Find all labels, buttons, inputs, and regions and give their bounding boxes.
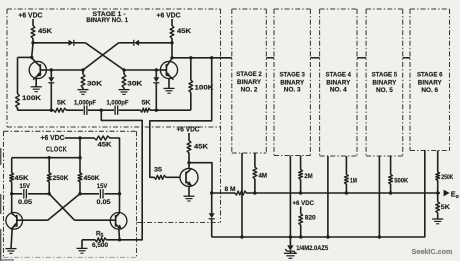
- wire 30K right to ground: [123, 88, 125, 89]
- svg-text:45K: 45K: [98, 141, 112, 148]
- wire 1M to bus: [345, 184, 347, 193]
- node clock left collector: [10, 192, 13, 195]
- capacitor 0.05 15V (left): [18, 183, 32, 206]
- wire +6VDC to node: [65, 137, 80, 139]
- node right diode tap on trigger line: [155, 109, 158, 112]
- wire 30K to ground: [82, 88, 84, 89]
- wire resistor to collector node: [32, 39, 34, 43]
- stage 4 box label: [326, 71, 352, 93]
- wire stage 3 clamp line: [289, 156, 291, 238]
- svg-text:NO. 3: NO. 3: [284, 87, 301, 94]
- wire Q4 emitter drop: [118, 229, 121, 240]
- wire 250K upper lead: [48, 158, 50, 173]
- svg-text:5K: 5K: [441, 204, 450, 211]
- wire trigger tap down: [101, 110, 142, 240]
- resistor 450K (clock): [78, 173, 100, 182]
- node stage 3 clamp junction: [289, 235, 292, 238]
- svg-text:BINARY: BINARY: [237, 79, 262, 86]
- wire Q1 base line: [46, 69, 83, 71]
- node left base junction: [81, 68, 84, 71]
- wire Q2 emitter to ground: [168, 79, 170, 89]
- resistor 5K (output load): [436, 202, 450, 214]
- diode steering left: [69, 40, 74, 46]
- wire resistor to collector node right: [171, 39, 173, 43]
- stage 3 box label: [279, 71, 305, 93]
- svg-text:CLOCK: CLOCK: [46, 147, 67, 154]
- wire cap to 250K node: [28, 193, 49, 195]
- svg-text:0.05: 0.05: [97, 199, 111, 206]
- svg-text:+6 VDC: +6 VDC: [293, 200, 315, 207]
- ground (Q3 emitter): [6, 249, 17, 254]
- wire stage 3 output lead: [300, 156, 302, 170]
- resistor 100K (stage1 right): [189, 80, 214, 93]
- diode D3 (left base, pointing down): [48, 77, 54, 83]
- node +6 VDC label (stage1 right): [157, 13, 181, 20]
- svg-text:1,000pF: 1,000pF: [74, 100, 96, 107]
- node emitter / Rs junction: [118, 238, 121, 241]
- ground (output 5K): [432, 219, 443, 224]
- node CLOCK label: [46, 147, 67, 154]
- svg-text:+6 VDC: +6 VDC: [41, 135, 65, 142]
- svg-text:Eo: Eo: [451, 189, 459, 200]
- wire left base line: [23, 219, 48, 221]
- wire stage 4 clamp line: [327, 156, 329, 237]
- svg-text:15V: 15V: [20, 183, 31, 190]
- wire tee to 100K: [18, 56, 32, 58]
- wire Rs line: [82, 239, 142, 241]
- svg-text:BINARY NO. 1: BINARY NO. 1: [86, 17, 128, 24]
- node left collector tee: [30, 56, 33, 59]
- wire base diode drop: [50, 70, 52, 77]
- node stage 5 clamp junction: [378, 235, 381, 238]
- node stage 4 clamp junction: [326, 235, 329, 238]
- wire diode to bend: [74, 42, 85, 44]
- node diode tap right base: [155, 68, 158, 71]
- stage 3 dashed box: [274, 9, 310, 156]
- node stage 1 title: [86, 11, 128, 24]
- node left diode tap on trigger line: [50, 109, 53, 112]
- resistor 500K (stage 5 summing): [389, 174, 409, 185]
- resistor 45K (clock left collector load): [10, 173, 29, 182]
- node right collector tee: [170, 56, 173, 59]
- svg-text:STAGE 4: STAGE 4: [326, 71, 352, 78]
- wire diagonal left-cap to right base: [49, 194, 74, 220]
- stage 5 box label: [372, 72, 398, 94]
- ground (Rs): [77, 248, 88, 253]
- svg-text:NO. 5: NO. 5: [376, 87, 393, 94]
- wire diode to trigger line: [50, 83, 52, 110]
- wire 4M to bus: [254, 179, 256, 193]
- resistor 45K (stage1 right collector load): [170, 26, 191, 39]
- wire Q3 emitter to ground: [11, 229, 12, 249]
- svg-text:0.05: 0.05: [18, 199, 32, 206]
- capacitor 1,000pF (right): [107, 100, 129, 115]
- wire buffer collector to clamp node: [189, 163, 212, 193]
- svg-text:30K: 30K: [87, 81, 102, 88]
- svg-text:STAGE 5: STAGE 5: [372, 72, 398, 79]
- resistor 5K (right trigger): [140, 100, 150, 113]
- node +6 VDC label (stage1 left): [18, 13, 42, 20]
- wire 250K to cap node: [48, 182, 50, 194]
- svg-text:1,000pF: 1,000pF: [107, 100, 129, 107]
- wire 45K to left collector node: [11, 182, 13, 194]
- wire 100K upper lead: [17, 57, 19, 93]
- node summing tap stage1: [210, 191, 213, 194]
- svg-text:250K: 250K: [53, 175, 69, 182]
- svg-text:250K: 250K: [441, 174, 453, 181]
- wire 500K to bus: [390, 184, 392, 193]
- wire base diode drop right: [155, 70, 157, 77]
- resistor 820 (reference feed): [299, 214, 316, 226]
- node left cap / 250K junction: [48, 192, 51, 195]
- svg-text:1/4M2.0AZ5: 1/4M2.0AZ5: [296, 245, 329, 252]
- diode D4 (right base, pointing down): [153, 77, 159, 83]
- wire +6VDC left to resistor: [32, 19, 34, 26]
- transistor Q3 (clock left): [6, 213, 23, 230]
- wire stage 2 clamp line: [241, 153, 243, 237]
- wire zener lead: [289, 237, 291, 245]
- wire Rs to ground: [81, 240, 83, 248]
- resistor 45K (stage1 left collector load): [31, 26, 52, 39]
- diode steering right: [134, 40, 139, 46]
- node +6 VDC label (buffer): [177, 127, 200, 134]
- wire 2M to bus: [300, 180, 302, 194]
- node 500K bus junction: [389, 191, 392, 194]
- wire node to 45K horizontal: [80, 137, 94, 139]
- wire +6VDC to 45K: [188, 133, 190, 141]
- svg-text:30K: 30K: [127, 81, 142, 88]
- transistor Q5 (clock output buffer NPN): [180, 168, 198, 186]
- svg-text:STAGE 6: STAGE 6: [417, 72, 443, 79]
- node right base junction: [122, 68, 125, 71]
- wire clock bias rail: [12, 157, 80, 159]
- svg-text:BINARY: BINARY: [280, 79, 305, 86]
- wire zener to ground: [289, 251, 291, 254]
- wire 450K to cap node: [79, 182, 81, 194]
- wire diagonal 450K-node to left base: [48, 194, 80, 220]
- wire stage 6 output lead: [437, 151, 439, 172]
- stage 2 dashed box: [232, 9, 266, 153]
- wire Q5 emitter to ground: [188, 186, 190, 196]
- svg-text:4M: 4M: [259, 173, 268, 180]
- svg-text:8 M: 8 M: [225, 186, 236, 193]
- wire cap to right collector node: [105, 193, 120, 195]
- svg-text:STAGE 2: STAGE 2: [236, 71, 262, 78]
- wire collector node to diode: [33, 42, 69, 44]
- scan artifact edge marks: [0, 148, 14, 261]
- svg-text:15V: 15V: [97, 183, 108, 190]
- resistor 100K (stage1 right) upper lead: [190, 58, 192, 80]
- wire base junction stub right: [123, 70, 125, 74]
- wire cross-coupling diagonal to right base: [85, 43, 124, 70]
- svg-text:R5: R5: [96, 231, 104, 240]
- resistor 250K (stage 6 summing): [436, 172, 454, 181]
- svg-text:+6 VDC: +6 VDC: [177, 127, 200, 134]
- resistor 5K (output load) lead: [437, 193, 439, 202]
- wire stage1 output to buffer: [150, 58, 212, 178]
- wire stage 5 output lead: [390, 156, 392, 174]
- svg-text:100K: 100K: [22, 95, 41, 102]
- wire stage 5 clamp line: [378, 156, 380, 237]
- wire 820 to reference line: [300, 225, 302, 237]
- svg-text:45K: 45K: [177, 28, 191, 35]
- wire Q1 emitter to ground: [35, 79, 37, 87]
- wire 45K clock-left upper lead: [11, 158, 13, 173]
- svg-text:+6 VDC: +6 VDC: [18, 13, 42, 20]
- resistor 5K (left trigger): [54, 100, 67, 113]
- node 100K right tap: [189, 56, 192, 59]
- capacitor 1,000pF (left): [74, 100, 96, 115]
- resistor 35 (buffer base): [154, 167, 166, 180]
- wire 450K upper lead: [79, 158, 81, 173]
- capacitor 0.05 15V (right): [97, 183, 111, 206]
- stage 4 dashed box: [320, 9, 357, 156]
- wire +6VDC to 820: [300, 207, 302, 214]
- wire trigger line: [18, 109, 191, 111]
- wire base junction stub: [82, 70, 84, 74]
- node +6 VDC label (clock): [41, 135, 65, 142]
- node output arrow: [444, 189, 459, 200]
- node clock supply tee: [78, 136, 81, 139]
- wire diode to bend right: [119, 42, 134, 44]
- ground (Q5 emitter): [184, 196, 195, 201]
- node +6 VDC label (reference): [293, 200, 315, 207]
- node stage 2 clamp junction: [240, 235, 243, 238]
- ground (Q2 emitter): [164, 88, 175, 93]
- resistor 250K (clock): [47, 173, 68, 182]
- ground (30K left): [78, 90, 89, 95]
- resistor 30K (left): [81, 74, 102, 88]
- wire summing bus: [212, 192, 440, 194]
- wire 5K to ground: [437, 213, 439, 219]
- svg-text:45K: 45K: [194, 143, 208, 150]
- resistor 2M (stage 3 summing): [299, 169, 313, 180]
- wire coupling stage 5 to stage 6: [403, 57, 410, 59]
- wire clamp diode to reference line: [211, 219, 213, 237]
- svg-text:450K: 450K: [84, 175, 100, 182]
- wire collector node left to diode: [139, 42, 172, 44]
- node stage1 right collector junction: [170, 41, 173, 44]
- svg-text:BINARY: BINARY: [372, 80, 397, 87]
- svg-text:NO. 2: NO. 2: [241, 86, 258, 93]
- clock output buffer enclosure dashed bottom border: [137, 222, 221, 224]
- node stage1 left collector junction: [31, 41, 34, 44]
- svg-text:BINARY: BINARY: [326, 79, 351, 86]
- resistor 45K (buffer collector load): [187, 141, 208, 154]
- wire stage1 output line to stage 2: [172, 57, 232, 59]
- node 250K bus junction: [436, 191, 439, 194]
- wire left collector drop: [32, 43, 33, 58]
- wire Q4 collector lead: [119, 194, 121, 213]
- wire 250K to bus: [437, 181, 439, 194]
- ground (30K right): [119, 90, 130, 95]
- node trigger centre tap: [100, 109, 103, 112]
- node diode tap left base: [50, 68, 53, 71]
- wire Q3 collector lead: [11, 194, 13, 214]
- wire 450K node to right cap: [80, 193, 99, 195]
- ground (zener): [284, 253, 297, 258]
- wire +6VDC right to resistor: [171, 19, 173, 26]
- transistor Q2 (stage1 right PNP): [160, 58, 177, 79]
- node 2M bus junction: [299, 191, 302, 194]
- resistor R5 6,500 (emitter): [92, 231, 108, 249]
- svg-text:45K: 45K: [38, 28, 52, 35]
- resistor 4M (stage 2 summing): [253, 167, 267, 180]
- svg-text:820: 820: [305, 215, 316, 222]
- wire right collector drop: [171, 43, 173, 58]
- svg-text:+6 VDC: +6 VDC: [157, 13, 181, 20]
- svg-text:BINARY: BINARY: [418, 80, 443, 87]
- resistor 8M (stage1 summing): [225, 186, 247, 195]
- diode D5 (clamp, pointing down): [209, 213, 215, 219]
- transistor Q1 (stage1 left PNP): [29, 58, 46, 80]
- transistor Q4 (clock right): [110, 213, 127, 230]
- node 820 reference junction: [299, 235, 302, 238]
- node 1M bus junction: [345, 191, 348, 194]
- wire collector node into transistor: [188, 163, 190, 169]
- node rail 450K tee: [78, 156, 81, 159]
- node clock right collector: [118, 192, 121, 195]
- wire 35 to buffer base: [166, 176, 180, 178]
- node buffer collector: [187, 161, 190, 164]
- resistor 30K (right): [122, 74, 142, 88]
- wire stage 2 output lead: [254, 153, 256, 167]
- svg-text:NO. 6: NO. 6: [421, 87, 438, 94]
- wire diode to trigger line right: [155, 83, 157, 110]
- svg-text:5K: 5K: [57, 100, 66, 107]
- clock enclosure dashed box: [4, 131, 137, 257]
- wire Q2 base line: [124, 69, 160, 71]
- wire 100K to trigger line: [17, 108, 19, 110]
- node 4M bus junction: [253, 191, 256, 194]
- wire coupling stage 4 to stage 5: [357, 57, 366, 59]
- wire left collector to cap: [12, 193, 23, 195]
- wire 100K right to trigger line corner: [190, 93, 192, 111]
- stage 5 dashed box: [366, 9, 403, 156]
- ground (Q1 emitter): [31, 87, 42, 92]
- svg-text:STAGE 3: STAGE 3: [279, 71, 305, 78]
- wire supply drop to rail: [79, 138, 81, 158]
- svg-text:NO. 4: NO. 4: [330, 87, 347, 94]
- node stage1 output vertical tap: [210, 56, 213, 59]
- zener diode 1/4M2.0AZ5: [285, 245, 329, 253]
- node 450K junction: [78, 192, 81, 195]
- wire stage 6 clamp line: [212, 151, 425, 238]
- wire 45K to right collector drop: [110, 138, 120, 194]
- stage 6 box label: [417, 72, 443, 94]
- wire coupling stage 2 to stage 3: [266, 57, 274, 59]
- wire stage 4 output lead: [345, 156, 347, 174]
- resistor 1M (stage 4 summing): [345, 174, 358, 185]
- node rail 250K tee: [48, 156, 51, 159]
- svg-text:45K: 45K: [15, 175, 29, 182]
- stage 1 enclosure dashed box: [7, 9, 221, 223]
- resistor 100K (stage1 left): [16, 94, 42, 109]
- stage 2 box label: [236, 71, 262, 93]
- wire cross-coupling diagonal to left base: [83, 43, 119, 70]
- svg-text:2M: 2M: [304, 173, 313, 180]
- wire 45K to collector node: [188, 153, 190, 163]
- svg-text:100K: 100K: [195, 85, 214, 92]
- stage 6 dashed box: [410, 9, 450, 151]
- svg-text:500K: 500K: [394, 178, 408, 185]
- watermark: [412, 249, 453, 256]
- resistor 45K (clock right collector load): [94, 136, 112, 148]
- wire right base line: [75, 219, 111, 221]
- svg-text:5K: 5K: [142, 100, 151, 107]
- svg-text:1M: 1M: [350, 178, 357, 185]
- svg-text:SeekIC.com: SeekIC.com: [412, 249, 453, 256]
- wire clamp diode upper lead: [211, 193, 213, 213]
- wire coupling stage 3 to stage 4: [310, 57, 319, 59]
- svg-text:35: 35: [154, 167, 162, 174]
- svg-text:6,500: 6,500: [92, 242, 108, 249]
